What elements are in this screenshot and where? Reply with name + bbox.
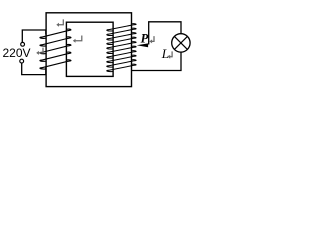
svg-text:220V: 220V <box>3 46 31 60</box>
svg-text:L: L <box>161 46 169 61</box>
svg-text:P: P <box>141 31 149 45</box>
